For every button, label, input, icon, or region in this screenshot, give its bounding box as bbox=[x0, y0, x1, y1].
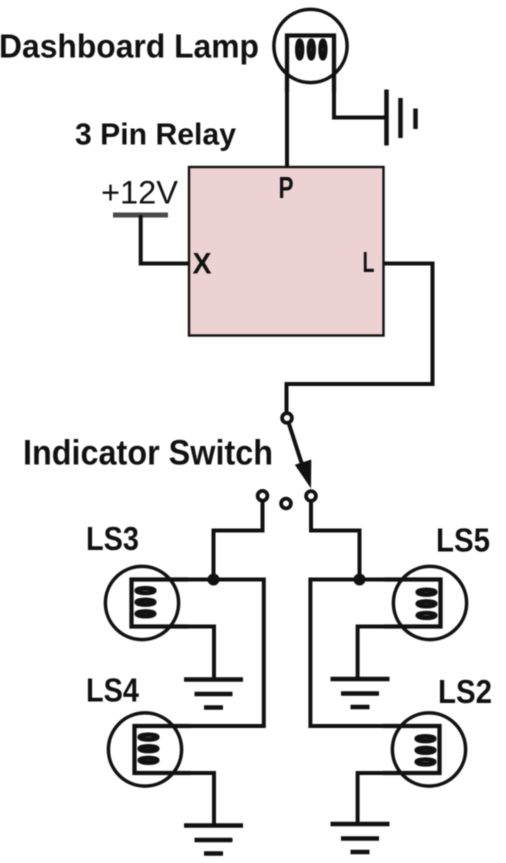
node junction right bbox=[354, 574, 366, 586]
ground LS5 bbox=[331, 679, 390, 707]
svg-text:3 Pin Relay: 3 Pin Relay bbox=[75, 116, 237, 151]
chassis ground (top right) bbox=[387, 90, 416, 146]
wire right junction bus to LS2 bbox=[310, 580, 388, 727]
switch lever arrowhead bbox=[295, 460, 312, 489]
svg-text:Dashboard Lamp: Dashboard Lamp bbox=[0, 28, 259, 65]
ground LS4 bbox=[184, 826, 243, 854]
switch lever bbox=[289, 424, 304, 469]
wire switch left contact to left junction bbox=[214, 501, 263, 580]
ground LS3 bbox=[184, 680, 243, 708]
wire LS5 to ground bbox=[358, 627, 388, 678]
wire lamp to chassis ground bbox=[334, 80, 385, 118]
node junction left bbox=[208, 574, 220, 586]
svg-text:LS3: LS3 bbox=[86, 520, 139, 557]
wire lamp to relay pin P bbox=[285, 80, 289, 167]
switch contact right bbox=[306, 491, 316, 501]
switch contact left bbox=[258, 491, 268, 501]
wire relay pin L to switch bbox=[287, 264, 433, 413]
svg-text:X: X bbox=[193, 248, 212, 281]
wire +12V to relay pin X bbox=[141, 215, 189, 264]
switch contact middle bbox=[281, 499, 291, 509]
lamp LS5 bbox=[384, 566, 467, 639]
svg-text:LS2: LS2 bbox=[438, 673, 492, 710]
svg-text:LS4: LS4 bbox=[86, 672, 140, 709]
svg-text:Indicator Switch: Indicator Switch bbox=[23, 434, 273, 473]
wire LS2 to ground bbox=[358, 773, 385, 822]
lamp LS4 bbox=[108, 713, 191, 786]
ground LS2 bbox=[331, 824, 390, 852]
lamp LS2 bbox=[383, 713, 466, 786]
svg-text:LS5: LS5 bbox=[436, 522, 490, 559]
wire switch right contact to right junction bbox=[311, 501, 360, 580]
lamp Dashboard Lamp bbox=[274, 9, 347, 92]
svg-text:+12V: +12V bbox=[101, 175, 179, 211]
wire LS3 to ground bbox=[184, 627, 214, 678]
svg-text:L: L bbox=[363, 247, 375, 279]
switch pivot contact bbox=[282, 413, 292, 423]
power +12V symbol bbox=[113, 213, 168, 218]
wire LS4 to ground bbox=[188, 773, 214, 824]
lamp LS3 bbox=[105, 566, 188, 639]
relay box U1 bbox=[189, 167, 384, 336]
wire left junction bus to LS4 bbox=[184, 580, 264, 727]
svg-text:P: P bbox=[279, 170, 294, 205]
